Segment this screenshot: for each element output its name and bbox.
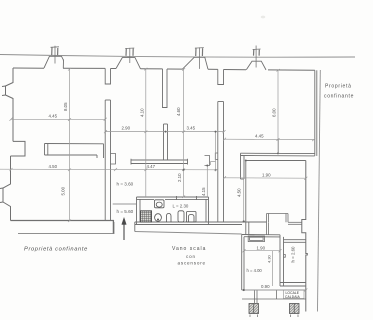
wall W2 jamb [218,69,224,84]
stair block top wall [242,235,280,237]
chimney 1 [51,46,60,64]
svg-text:4.45: 4.45 [49,114,58,119]
svg-text:ascensore: ascensore [178,261,206,266]
boiler label box [284,290,305,299]
svg-text:4.10: 4.10 [140,108,145,117]
southeast wall with jogs [302,161,308,312]
bay window 2 [116,58,141,69]
column fixture [178,211,184,222]
thick wall block [45,144,104,159]
shelf line above h=5.60 [113,203,136,205]
terrace lower wall [245,160,306,236]
svg-text:1.90: 1.90 [257,246,266,251]
dimension line h y169.5 [0,168,218,171]
wall W2 [218,102,224,223]
hatched post left [249,304,259,318]
dimension line h y139.2 [223,138,315,154]
dimension line v x145.8 [144,68,147,197]
kitchen walls [137,196,209,225]
dimension text 3.45 [187,125,196,130]
svg-text:con: con [186,254,196,259]
dimension line v x272.5 stairs [272,251,274,286]
dimension text 2.90 [122,125,131,130]
wall W1 stub [164,124,168,160]
wall W1 jamb [163,69,168,108]
svg-text:0.90: 0.90 [261,284,270,289]
svg-text:4.50: 4.50 [237,188,242,197]
bay window 1 [44,56,64,68]
dimension text 4.30 [267,254,272,263]
west wall upper with chevron bay [2,68,13,141]
dimension text 4.45b [255,134,264,139]
svg-text:confinante: confinante [324,94,354,100]
svg-text:2.90: 2.90 [122,125,131,130]
elevator room top wall [284,240,306,243]
svg-text:8.05: 8.05 [63,102,68,111]
NE room bottom wall [241,153,315,156]
svg-text:5.00: 5.00 [61,186,66,195]
svg-text:Proprietà confinante: Proprietà confinante [24,247,88,253]
dimension line v x278 [277,69,280,154]
wall W0 jamb [105,68,110,84]
dimension text 4.15 [201,187,206,196]
svg-text:4.50: 4.50 [49,164,58,169]
label h=5.60 [117,209,134,214]
svg-text:L = 2.30: L = 2.30 [173,204,189,209]
svg-text:h = 2.60: h = 2.60 [291,246,296,263]
svg-text:Vano scala: Vano scala [172,246,206,252]
label Vano scala con ascensore [172,246,206,266]
label h=3.60 [117,182,134,187]
dimension line h y118 [10,118,107,121]
dimension text 1.90 [262,173,271,178]
stair block left wall [242,235,244,291]
north wall [13,68,315,70]
scan smudge [261,16,265,19]
svg-text:4.45: 4.45 [255,134,264,139]
elevator room door jamb ticks [284,255,286,258]
chimney 2 [125,48,134,63]
platform second line [268,222,270,235]
tub [187,212,197,223]
elevator room left wall [280,235,284,286]
svg-text:4.47: 4.47 [147,164,156,169]
label Proprieta confinante right [324,84,354,100]
dimension connector x215.5 [211,132,217,171]
stair window [248,236,264,242]
dimension text 4.50 [237,188,242,197]
dimension line h y250.7 [243,249,282,252]
sink [155,200,165,208]
svg-text:h = 5.60: h = 5.60 [117,209,134,214]
boundary line right [318,70,321,312]
dimension text 5.00 [61,186,66,195]
bracket right of bar [205,156,210,166]
bidet [167,214,172,223]
dimension line h y131.6 [104,130,226,133]
dimension line v x243.7 [243,178,245,223]
svg-text:3.45: 3.45 [187,125,196,130]
label h=4.00 [247,268,263,273]
wall W0 [105,100,110,221]
NE room door jamb wall [241,153,245,179]
dimension text 4.47 [147,164,156,169]
dimension line h y178 [223,176,307,179]
partition bar [131,159,188,165]
svg-text:6.00: 6.00 [272,108,277,117]
pilaster on W2 [215,153,218,160]
dimension text 8.05 [63,102,68,111]
southwest step wall [11,141,26,156]
pilaster on W0 [111,154,116,165]
boundary line bottom-middle [135,232,242,235]
elevator room bottom wall [280,283,306,287]
dimension line h y290 [242,289,307,292]
boundary line top [0,55,355,58]
chimney 4 [253,46,261,68]
kitchen bottom wall [135,222,267,232]
chimney 3 [195,47,204,69]
hatched post right [290,304,300,318]
east wall NE room [315,70,317,156]
svg-text:1.90: 1.90 [262,173,271,178]
dimension text 4.45 [49,114,58,119]
label Proprieta confinante bottom-left [24,247,88,253]
svg-text:4.60: 4.60 [176,107,181,116]
label L=2.30 [173,204,189,209]
wc circle [155,214,162,222]
dimension text 4.10 [140,108,145,117]
dimension line v x183.6 [182,68,185,198]
dimension line v x69.5 [68,68,71,222]
svg-text:h = 3.60: h = 3.60 [117,182,134,187]
entrance arrow [122,218,127,241]
svg-text:4.15: 4.15 [201,187,206,196]
stair bottom lines [242,290,306,303]
bay window 3 [183,57,209,69]
platform near stair [267,214,302,235]
dimension text 1.90b [257,246,266,251]
west wall lower with chevron bay [0,156,11,221]
svg-text:h = 4.00: h = 4.00 [247,268,263,273]
bay window 4 [246,61,266,70]
dimension text 6.00 [272,108,277,117]
boundary line bottom-left [18,222,114,234]
svg-text:2.10: 2.10 [177,173,182,182]
dimension text 4.60 [176,107,181,116]
label h=2.60 vertical [291,246,296,263]
dimension text 4.50b [49,164,58,169]
dimension line v x207.3 [206,165,208,198]
svg-text:4.30: 4.30 [267,254,272,263]
stove hatched [141,211,152,222]
svg-text:Proprietà: Proprietà [325,84,352,90]
south wall [11,221,114,234]
dimension text 2.10 [177,173,182,182]
svg-text:CALDAIA: CALDAIA [285,295,301,299]
dimension text 0.90 [261,284,270,289]
